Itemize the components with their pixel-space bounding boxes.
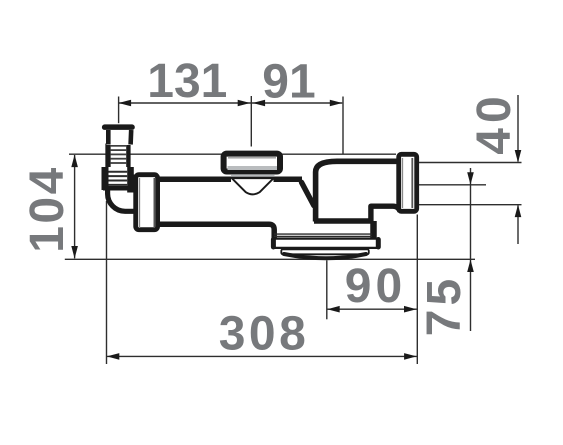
extension line outlet centerline [417, 184, 486, 186]
outlet nut inner line right [411, 158, 413, 208]
upper corrugation right wall [126, 144, 130, 168]
cone under tee [232, 178, 274, 194]
arrowhead 90 left [327, 306, 340, 313]
outlet elbow left wall + top wall [316, 161, 397, 221]
dimension line 104 vertical [74, 155, 76, 258]
extension line at tee axis x=251.3 [250, 96, 252, 147]
arrowhead 40 top (points down) [515, 150, 522, 163]
neck right wall [128, 130, 133, 145]
cup lower band [281, 249, 369, 254]
lower corrugation bottom bar [103, 186, 133, 191]
svg-text:91: 91 [262, 56, 315, 109]
tee collar [231, 174, 275, 177]
bottom reference line (cup bottom level) [65, 258, 475, 260]
arrowhead 308 right [404, 353, 417, 360]
arrowhead 91 left [253, 100, 266, 107]
extension line outlet end x=417.3 [416, 215, 418, 365]
svg-text:104: 104 [21, 165, 74, 253]
neck left wall [106, 130, 111, 145]
left nut inner line right [153, 178, 155, 228]
left elbow outer curve [108, 189, 136, 212]
dimension line 308 horizontal [107, 355, 417, 357]
upper corrugation left wall [105, 144, 110, 168]
cup flange band left cap [271, 240, 276, 248]
lower corrugation ribs [109, 172, 128, 185]
left nut inner line left [139, 178, 141, 228]
outlet elbow white fill [313, 157, 397, 224]
junction blob corrugation to nut [127, 175, 138, 193]
tee nut (inlet) [224, 154, 280, 172]
svg-text:90: 90 [345, 260, 406, 313]
arrowhead 308 left [107, 353, 120, 360]
dimension line 75 vertical [470, 168, 472, 331]
dimension line 90 horizontal [327, 308, 417, 310]
tee collar bottom line [231, 177, 276, 179]
arrowhead 75 top (points down) [467, 172, 474, 185]
cup lid thin line upper [274, 233, 372, 235]
top flange bar [102, 124, 135, 129]
main tube bottom wall with step down to cup [158, 224, 274, 240]
corrugated pipe: upper section fill [106, 144, 131, 168]
left elbow white fill [107, 184, 133, 214]
arrowhead 40 bottom (points up) [515, 205, 522, 218]
svg-text:40: 40 [468, 91, 521, 154]
dimension line 131/91 horizontal [119, 102, 343, 104]
extension lines outlet 40 [417, 162, 522, 164]
extension line left end x=106.5 [106, 201, 108, 364]
svg-text:131: 131 [147, 55, 227, 108]
upper corrugation ribs [111, 146, 127, 163]
arrowhead 90 right [404, 306, 417, 313]
lower corrugation right wall [127, 167, 134, 190]
outlet nut [399, 154, 417, 211]
svg-text:75: 75 [418, 275, 471, 336]
extension line cup axis [326, 260, 328, 319]
main tube white fill [158, 178, 310, 226]
dimension line 40 vertical [517, 95, 519, 162]
nub connecting elbow to cup [370, 221, 377, 240]
left coupling nut [136, 175, 158, 230]
outlet nut inner line left [402, 158, 404, 208]
elbow bottom wall, riser right wall, stub bottom wall [314, 206, 400, 221]
arrowhead 104 bottom [71, 246, 78, 259]
trap cup flange band [273, 239, 379, 248]
cup lid thin line lower [274, 235, 372, 237]
arrowhead 104 top [71, 155, 78, 168]
corrugated pipe: lower wide section fill [102, 167, 133, 190]
extension line at pipe axis x=118.6 [118, 97, 120, 124]
arrowhead 91 right [330, 100, 343, 107]
main tube top wall right segment [274, 176, 303, 182]
tube to riser diagonal lip [302, 182, 314, 205]
arrowhead 131 left [119, 100, 132, 107]
tee nut inner top line [228, 157, 276, 159]
svg-text:308: 308 [219, 308, 310, 361]
arrowhead 75 bottom (points up) [467, 260, 474, 273]
tee nut inner gray band [228, 166, 278, 170]
top reference line (part top level) [69, 153, 396, 155]
cup bottom arc [284, 254, 366, 258]
neck white fill [106, 130, 133, 145]
lower corrugation left wall [102, 167, 109, 190]
extension line at riser axis x=343 [342, 97, 344, 155]
cup flange band right cap [376, 240, 381, 248]
arrowhead 131 right [238, 100, 251, 107]
main tube top wall left segment [158, 176, 231, 182]
